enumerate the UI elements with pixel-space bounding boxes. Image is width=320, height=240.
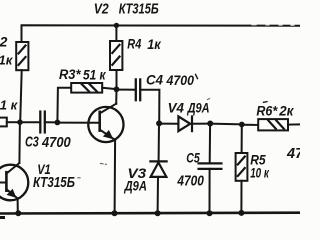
node R5 on rail [238,210,244,216]
svg-text:КТ315Б: КТ315Б [33,175,75,191]
resistor R4 [110,41,122,70]
wire C5 top from node [209,124,211,163]
svg-text:1к: 1к [147,36,161,52]
svg-text:С5: С5 [186,150,200,166]
ground rail (bottom) [0,211,300,214]
label C5 4700 [177,150,204,190]
label V2 КТ315Б [94,2,159,18]
wire V3 anode to rail [157,177,159,213]
wire R3 right to collector node [102,88,116,89]
node V2 emitter on rail [112,210,118,216]
label C4 4700 [146,73,198,88]
wire R6 right to edge [288,123,300,125]
transistor V1 [0,163,28,200]
svg-text:R3*: R3* [59,67,81,82]
resistor R6 [258,119,288,130]
wire C4 right then down to detector node [140,90,159,124]
capacitor C5 [199,163,222,169]
wire R4 bottom to node [116,70,118,89]
node top rail R4 junction [114,23,119,28]
svg-text:V2: V2 [94,2,109,18]
wire C3 to base node [45,121,58,123]
svg-text:R6*: R6* [256,103,277,118]
wire node down to R5 [241,125,243,154]
svg-text:51 к: 51 к [83,67,107,82]
label 4700 (clipped at right edge) [286,146,311,162]
node C3 / R3 / V2 base [55,120,61,126]
svg-text:4700: 4700 [41,134,71,151]
svg-text:КТ315Б: КТ315Б [119,2,159,18]
label R1 value (clipped) [0,98,19,113]
node V1 emitter on rail [15,210,21,216]
node C5 junction [207,121,213,127]
svg-text:R4: R4 [127,36,141,52]
edge mark bottom-left [0,216,4,219]
node V1 collector / R2 / C3 [17,119,23,125]
wire R2 bottom to node [20,70,22,122]
label R2 value (clipped at left edge) [0,34,14,68]
label V4 Д9А [168,100,210,116]
svg-text:Д9А: Д9А [187,100,210,116]
faded breaks in top rail (scan artifact) [252,24,294,26]
wire node to C3 [20,121,40,123]
wire node up to R3 left [57,88,71,123]
label V3 Д9А [124,165,147,194]
resistor R5 [236,153,248,181]
svg-text:С3: С3 [25,134,39,151]
svg-text:10 к: 10 к [250,164,269,180]
wire node to R6 [242,124,258,126]
node V4 anode / V3 / C4 [156,120,162,126]
capacitor C3 [40,112,45,133]
transistor V2 [88,104,123,142]
svg-text:R2: R2 [0,34,8,50]
diode V4 [178,116,192,131]
resistor R3 [71,83,102,93]
svg-text:Д9А: Д9А [124,177,147,193]
capacitor C4 [136,79,140,100]
wire V2 emitter down to rail [114,140,117,213]
label V1 КТ315Б [33,161,75,191]
label R6* 2к [256,102,294,119]
wire V4 cathode to C5 node [192,123,210,125]
wire V2 collector up to node [115,89,117,104]
speck noise [78,99,210,178]
svg-text:2к: 2к [278,104,294,119]
node V2 collector / R4 / R3 / C4 [114,86,120,92]
wire node to V4 [159,123,178,125]
wire node down to V1 collector [18,122,21,163]
node R5 / R6 junction [239,122,245,128]
svg-text:51 к: 51 к [0,98,19,113]
svg-text:4700: 4700 [177,173,204,189]
svg-text:4700: 4700 [166,73,195,88]
label R4 1к [127,36,161,53]
wire rail to R4 top [115,25,117,41]
wire C5 node to R5 node [210,123,242,126]
label R5 10к [250,151,269,180]
node V3 on rail [155,210,161,216]
svg-text:С4: С4 [146,73,163,88]
wire top supply rail [22,25,301,42]
label R3* 51 к [59,67,107,82]
svg-text:V4: V4 [168,100,185,116]
wire V3 top from node [158,123,160,160]
wire R1 to node [7,121,20,123]
label C3 4700 [25,134,71,151]
svg-text:1к: 1к [0,53,14,68]
node C5 on rail [207,210,213,216]
wire V2 base [57,122,99,124]
diode V3 [150,161,166,177]
wire R5 bottom to rail [240,181,242,213]
resistor R2 [16,42,28,70]
wire V1 emitter to ground rail [17,198,19,213]
wire C5 bottom to rail [209,169,211,213]
wire node to C4 [117,89,136,91]
resistor R1 (clipped at left edge) [0,118,7,127]
svg-text:470: 470 [286,146,300,162]
